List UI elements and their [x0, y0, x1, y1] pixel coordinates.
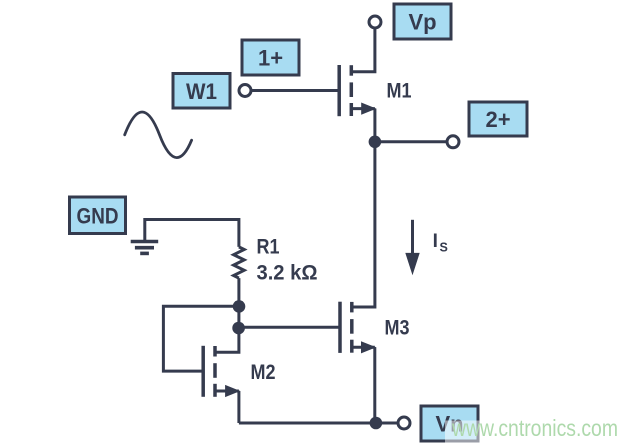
svg-text:W1: W1: [186, 79, 217, 104]
transistor M1: [339, 65, 376, 142]
label box Vn: [421, 406, 478, 441]
terminal W1: [239, 85, 251, 97]
label box W1: [173, 74, 230, 109]
wire: R1 bottom through nodes to M2 drain: [215, 278, 239, 352]
svg-text:GND: GND: [77, 203, 119, 228]
node: M1 source / output junction: [369, 136, 382, 149]
wire: W1 terminal to M1 gate: [251, 89, 340, 92]
label box 2+: [469, 102, 527, 136]
wire: ground to R1 top: [145, 220, 239, 247]
svg-text:M2: M2: [251, 361, 276, 384]
ground: [131, 242, 159, 254]
label box GND: [70, 197, 126, 234]
wire: Vp terminal to M1 drain: [351, 28, 375, 72]
svg-text:Vp: Vp: [408, 10, 436, 35]
transistor M3: [340, 302, 376, 423]
transistor M2: [203, 346, 240, 423]
sine wave source symbol: [125, 112, 192, 158]
wire: node to M3 gate: [239, 326, 340, 329]
watermark band: [445, 421, 622, 444]
wire: bottom rail to Vn terminal: [239, 422, 399, 425]
node: R1 bottom junction: [233, 300, 246, 313]
terminal 2+: [447, 136, 459, 148]
resistor R1: [234, 247, 245, 278]
terminal Vp: [369, 16, 381, 28]
svg-text:M1: M1: [387, 79, 412, 102]
terminal Vn: [398, 417, 410, 429]
svg-text:1+: 1+: [258, 46, 283, 71]
svg-text:2+: 2+: [485, 107, 510, 132]
node: bottom rail junction: [370, 417, 383, 430]
current arrow Is: [405, 220, 419, 275]
label box 1+: [242, 40, 299, 75]
svg-text:R1: R1: [257, 235, 280, 258]
wire: output node down to M3 drain: [352, 142, 375, 307]
wire: output node to 2+ terminal: [375, 140, 448, 143]
svg-text:www.cntronics.com: www.cntronics.com: [451, 415, 618, 441]
label box Vp: [394, 4, 451, 39]
node: gate junction: [232, 322, 245, 335]
svg-text:I: I: [433, 231, 438, 252]
svg-text:S: S: [440, 241, 448, 255]
svg-text:M3: M3: [385, 316, 410, 339]
svg-text:3.2 kΩ: 3.2 kΩ: [257, 262, 318, 285]
wire: gate feedback loop to M2 gate: [163, 306, 239, 371]
